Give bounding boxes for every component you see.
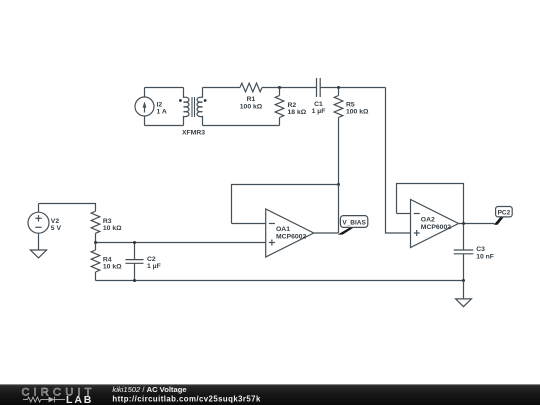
- node junction bottom rail / C3 / ground: [462, 279, 465, 282]
- svg-text:10 nF: 10 nF: [476, 254, 494, 261]
- capacitor C3: [454, 224, 494, 281]
- node junction C2 bottom: [133, 279, 136, 282]
- node junction C1/R5: [337, 86, 340, 89]
- svg-text:R2: R2: [288, 102, 297, 109]
- svg-text:MCP6002: MCP6002: [276, 234, 306, 241]
- svg-text:V_BIAS: V_BIAS: [342, 219, 366, 226]
- svg-text:1 µF: 1 µF: [312, 108, 326, 115]
- wire XFMR3 secondary top to R1: [203, 87, 241, 89]
- op-amp OA2: [411, 200, 459, 248]
- resistor R5: [334, 88, 369, 118]
- svg-text:C3: C3: [476, 246, 485, 253]
- wire C1 to top-right corner: [320, 87, 385, 89]
- wire I2 bottom to XFMR3 primary: [145, 125, 184, 127]
- svg-text:XFMR3: XFMR3: [182, 130, 205, 137]
- current source I2: [135, 88, 167, 126]
- footer bar: [0, 384, 540, 405]
- wire R1 to C1: [262, 87, 317, 89]
- resistor R4: [91, 243, 122, 281]
- svg-text:18 kΩ: 18 kΩ: [288, 109, 307, 116]
- svg-text:5 V: 5 V: [51, 225, 62, 232]
- svg-text:10 kΩ: 10 kΩ: [103, 225, 122, 232]
- wire OA2 feedback loop: [397, 184, 464, 224]
- svg-text:100 kΩ: 100 kΩ: [346, 109, 369, 116]
- svg-text:100 kΩ: 100 kΩ: [240, 104, 263, 111]
- voltage source V2: [28, 204, 61, 251]
- svg-text:R1: R1: [247, 96, 256, 103]
- resistor R2: [275, 88, 307, 126]
- svg-text:I2: I2: [157, 101, 163, 108]
- wire R5 bottom down to feedback node: [338, 118, 340, 185]
- resistor R1: [240, 83, 263, 111]
- svg-text:C2: C2: [147, 256, 156, 263]
- node junction feedback/R5: [337, 183, 340, 186]
- node junction OA2 output: [462, 222, 465, 225]
- svg-text:1 µF: 1 µF: [147, 263, 161, 270]
- node junction R1/R2: [278, 86, 281, 89]
- net flag PC2: [494, 207, 512, 225]
- svg-text:1 A: 1 A: [157, 108, 167, 115]
- wire V2 top to R3: [39, 204, 96, 212]
- node junction R3/R4: [94, 241, 97, 244]
- svg-text:R4: R4: [103, 256, 112, 263]
- svg-text:LAB: LAB: [66, 394, 93, 405]
- wire top rail to OA2 non-inverting input: [386, 88, 411, 234]
- transformer XFMR3: [179, 88, 207, 137]
- wire bottom rail: [96, 280, 464, 282]
- resistor R3: [91, 211, 122, 242]
- wire OA2 inverting input: [397, 213, 411, 215]
- wire OA1 output: [314, 232, 339, 234]
- svg-text:V2: V2: [51, 218, 60, 225]
- wire OA1 inverting input: [232, 223, 266, 225]
- net flag V_BIAS: [338, 216, 368, 235]
- capacitor C1: [312, 78, 326, 115]
- svg-text:R3: R3: [103, 218, 112, 225]
- op-amp OA1: [266, 209, 314, 257]
- wire R5 node down to OA1 output: [338, 185, 340, 234]
- svg-text:OA1: OA1: [276, 226, 290, 233]
- wire down to ground: [463, 281, 465, 299]
- svg-text:10 kΩ: 10 kΩ: [103, 263, 122, 270]
- wire I2 top to XFMR3 primary: [145, 87, 184, 89]
- svg-text:kiki1502 / AC Voltage: kiki1502 / AC Voltage: [112, 385, 186, 394]
- capacitor C2: [126, 243, 161, 281]
- svg-text:C1: C1: [314, 101, 323, 108]
- CircuitLab logo mini schematic (resistor and diode): [23, 397, 65, 403]
- ground under C3: [456, 299, 472, 307]
- wire OA1 non-inverting input: [96, 242, 266, 244]
- svg-text:PC2: PC2: [498, 209, 511, 216]
- node junction C2 top: [133, 241, 136, 244]
- svg-text:MCP6002: MCP6002: [421, 224, 451, 231]
- wire R2 bottom to XFMR3 secondary bottom: [203, 125, 280, 127]
- svg-text:OA2: OA2: [421, 216, 435, 223]
- wire OA1 feedback loop: [232, 185, 339, 224]
- ground under V2: [30, 250, 46, 258]
- wire OA2 output: [459, 223, 495, 225]
- svg-text:http://circuitlab.com/cv25suqk: http://circuitlab.com/cv25suqk3r57k: [112, 394, 261, 403]
